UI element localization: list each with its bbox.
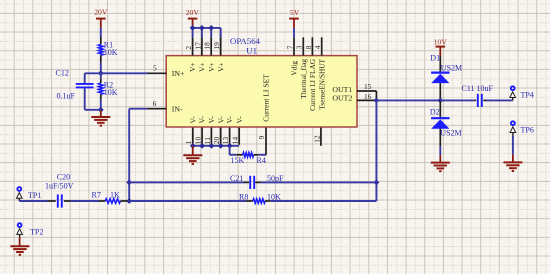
svg-text:9: 9 <box>257 135 266 139</box>
svg-text:R4: R4 <box>257 156 266 165</box>
svg-text:12: 12 <box>312 135 321 143</box>
svg-text:TP1: TP1 <box>28 191 41 200</box>
svg-text:10K: 10K <box>104 48 118 57</box>
svg-text:D2: D2 <box>430 108 440 117</box>
svg-text:V-: V- <box>225 116 234 124</box>
svg-text:V-: V- <box>235 116 244 124</box>
svg-text:D1: D1 <box>430 53 440 62</box>
svg-text:Current LI SET: Current LI SET <box>262 74 271 122</box>
svg-text:5V: 5V <box>290 8 300 17</box>
svg-text:14: 14 <box>231 137 240 145</box>
svg-text:0.1uF: 0.1uF <box>57 92 76 101</box>
svg-text:V-: V- <box>198 116 207 124</box>
svg-text:IN+: IN+ <box>172 69 185 78</box>
svg-text:1uF/50V: 1uF/50V <box>45 182 74 191</box>
svg-text:10K: 10K <box>104 88 118 97</box>
svg-text:6: 6 <box>153 99 157 108</box>
svg-text:V+: V+ <box>216 62 225 72</box>
svg-text:V-: V- <box>207 116 216 124</box>
svg-text:10V: 10V <box>434 37 448 46</box>
svg-text:IN-: IN- <box>172 104 183 113</box>
svg-text:17: 17 <box>193 42 202 50</box>
svg-text:20: 20 <box>212 137 221 145</box>
svg-text:20V: 20V <box>94 8 108 17</box>
svg-text:3: 3 <box>295 45 304 49</box>
svg-text:TP2: TP2 <box>30 228 43 237</box>
svg-text:20V: 20V <box>186 8 200 17</box>
svg-text:19: 19 <box>212 42 221 50</box>
svg-text:50pF: 50pF <box>267 174 284 183</box>
svg-text:15K: 15K <box>231 156 245 165</box>
svg-text:11: 11 <box>203 137 212 144</box>
svg-text:Vdig: Vdig <box>290 61 299 76</box>
svg-text:10K: 10K <box>267 193 281 202</box>
svg-text:US2M: US2M <box>441 63 462 72</box>
svg-text:V-: V- <box>188 116 197 124</box>
svg-text:R8: R8 <box>239 193 248 202</box>
svg-text:U1: U1 <box>246 46 257 56</box>
svg-text:5: 5 <box>153 64 157 73</box>
svg-text:4: 4 <box>313 45 322 49</box>
svg-text:1: 1 <box>184 140 193 144</box>
svg-text:TsenseEN/SHUT: TsenseEN/SHUT <box>317 58 326 109</box>
svg-text:R7: R7 <box>92 191 101 200</box>
svg-text:TP4: TP4 <box>521 90 534 99</box>
svg-text:TP6: TP6 <box>521 126 534 135</box>
svg-text:18: 18 <box>203 42 212 50</box>
svg-text:8: 8 <box>304 45 313 49</box>
svg-text:C12: C12 <box>56 68 69 77</box>
svg-text:15: 15 <box>364 82 372 91</box>
svg-text:C21: C21 <box>230 174 243 183</box>
svg-text:Thermal_flag: Thermal_flag <box>299 59 308 99</box>
svg-text:C20: C20 <box>57 172 70 181</box>
svg-text:OUT2: OUT2 <box>332 94 352 103</box>
svg-text:V+: V+ <box>207 62 216 72</box>
svg-text:1K: 1K <box>110 191 120 200</box>
svg-text:C11: C11 <box>462 84 475 93</box>
svg-text:V-: V- <box>216 116 225 124</box>
svg-text:V+: V+ <box>198 62 207 72</box>
svg-text:10uF: 10uF <box>477 84 494 93</box>
svg-text:US2M: US2M <box>440 128 461 137</box>
svg-text:13: 13 <box>221 137 230 145</box>
svg-text:Current LI FLAG: Current LI FLAG <box>308 58 317 111</box>
svg-text:2: 2 <box>184 46 193 50</box>
svg-text:16: 16 <box>364 92 372 101</box>
svg-text:7: 7 <box>285 45 294 49</box>
svg-text:V+: V+ <box>188 62 197 72</box>
svg-text:10: 10 <box>194 137 203 145</box>
